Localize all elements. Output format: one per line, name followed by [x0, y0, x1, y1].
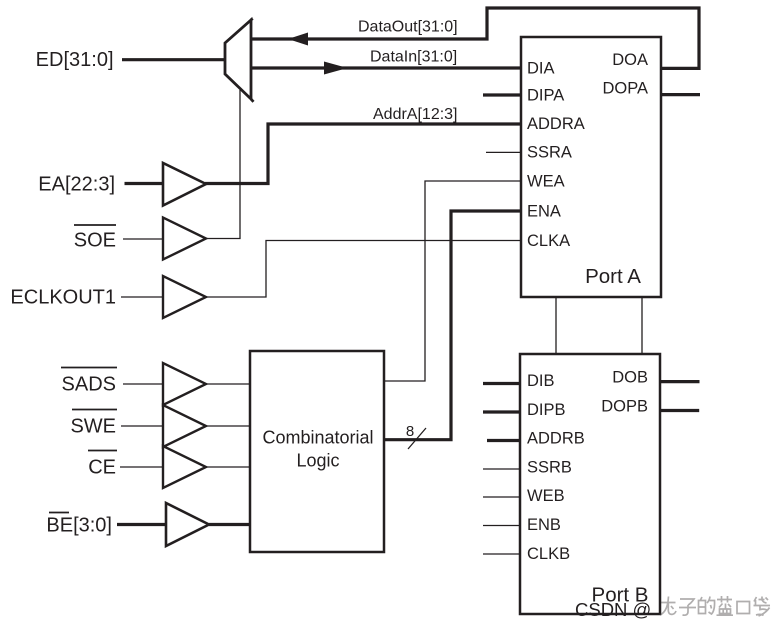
wire ADDRB stub: [487, 439, 520, 442]
wire SWE to logic: [206, 425, 250, 427]
wire SADS input: [123, 383, 163, 385]
svg-text:DIB: DIB: [527, 372, 555, 390]
svg-text:SOE: SOE: [74, 230, 116, 252]
overline BE: [49, 512, 69, 514]
block U3 Port A (block RAM port): [521, 37, 661, 297]
glyph 子: [679, 599, 696, 615]
svg-text:WEB: WEB: [527, 487, 565, 505]
wire ED[31:0] to mux: [122, 58, 226, 61]
buffer SOE: [163, 218, 206, 260]
svg-text:DIPB: DIPB: [527, 401, 566, 419]
wire BE input: [117, 523, 166, 526]
wire SOE input: [123, 238, 163, 240]
wire DIPA stub: [483, 93, 521, 96]
buffer CE: [163, 446, 206, 488]
wire DIB stub: [483, 382, 520, 385]
mux U1 (tristate transceiver trapezoid): [225, 20, 251, 99]
wire Port A to Port B left: [555, 297, 557, 354]
arrowhead DataOut (pointing left): [288, 33, 308, 46]
wire SOE buffer to mux select: [206, 90, 240, 239]
svg-text:CLKB: CLKB: [527, 545, 570, 563]
svg-text:Logic: Logic: [296, 451, 339, 471]
svg-text:EA[22:3]: EA[22:3]: [38, 174, 115, 196]
svg-text:CE: CE: [88, 457, 116, 479]
wire BE to logic: [209, 523, 250, 526]
wire SADS to logic: [206, 383, 250, 385]
wire Port A to Port B right: [641, 297, 643, 354]
overline CE: [88, 450, 117, 452]
svg-text:CLKA: CLKA: [527, 232, 570, 250]
svg-text:ECLKOUT1: ECLKOUT1: [10, 287, 116, 309]
svg-text:ADDRA: ADDRA: [527, 115, 585, 133]
block U4 Port B (block RAM port): [520, 354, 660, 614]
watermark CSDN @丸子的蓝口袋: [575, 596, 770, 620]
wire ECLKOUT1 to CLKA: [206, 241, 521, 298]
wire CE input: [120, 466, 163, 468]
wire EA input: [125, 182, 164, 185]
wire ENB stub: [483, 525, 520, 527]
wire DIPB stub: [483, 410, 520, 413]
svg-text:SSRA: SSRA: [527, 144, 572, 162]
wire WEB stub: [483, 496, 520, 498]
wire WEA from Combinatorial Logic: [384, 181, 521, 381]
svg-text:Combinatorial: Combinatorial: [262, 428, 373, 448]
svg-text:DOPA: DOPA: [602, 80, 648, 98]
svg-text:BE[3:0]: BE[3:0]: [46, 515, 112, 537]
wire DataOut[31:0]: mux to DOA via top: [251, 8, 699, 68]
overline SOE: [74, 224, 116, 226]
svg-text:DOB: DOB: [612, 369, 648, 387]
svg-text:DOPB: DOPB: [601, 397, 648, 415]
svg-text:ADDRB: ADDRB: [527, 430, 585, 448]
wire DOPB stub: [660, 409, 699, 412]
wire CE to logic: [206, 466, 250, 468]
svg-text:SADS: SADS: [62, 374, 116, 396]
svg-text:WEA: WEA: [527, 172, 565, 190]
buffer ECLKOUT1: [163, 276, 206, 318]
wire SSRA stub: [486, 151, 521, 153]
wire ENA bus from Combinatorial Logic (8 wide): [384, 211, 521, 440]
glyph 蓝: [717, 596, 734, 615]
arrowhead DataIn (pointing right): [324, 62, 348, 75]
wire AddrA[12:3]: EA buffer output to ADDRA: [205, 124, 521, 184]
buffer BE: [166, 503, 209, 546]
wire DataIn[31:0]: mux to DIA: [251, 66, 521, 69]
svg-text:DataOut[31:0]: DataOut[31:0]: [358, 19, 458, 36]
buffer SWE: [163, 405, 206, 447]
wire SSRB stub: [483, 468, 520, 470]
svg-text:DIPA: DIPA: [527, 86, 564, 104]
glyph 的: [699, 597, 715, 615]
glyph 袋: [754, 597, 771, 617]
block U2 Combinatorial Logic: [250, 351, 384, 552]
buffer SADS: [163, 363, 206, 405]
wire CLKB stub: [483, 553, 520, 555]
svg-text:ENB: ENB: [527, 516, 561, 534]
svg-text:SSRB: SSRB: [527, 458, 572, 476]
svg-text:CSDN @: CSDN @: [575, 599, 651, 620]
svg-text:Port A: Port A: [585, 265, 641, 288]
svg-text:DOA: DOA: [612, 51, 648, 69]
svg-text:SWE: SWE: [70, 416, 116, 438]
svg-text:DIA: DIA: [527, 59, 555, 77]
wire DOB stub: [660, 380, 700, 383]
svg-text:ED[31:0]: ED[31:0]: [36, 49, 114, 71]
buffer EA: [163, 163, 206, 206]
glyph 口: [737, 602, 750, 614]
overline SWE: [72, 409, 117, 411]
svg-text:AddrA[12:3]: AddrA[12:3]: [373, 106, 458, 123]
wire SWE input: [121, 425, 163, 427]
svg-text:8: 8: [406, 423, 414, 440]
overline SADS: [61, 367, 117, 369]
wire DOPA stub: [661, 93, 700, 96]
bus width slash: [408, 428, 426, 449]
glyph 丸: [660, 597, 676, 616]
svg-text:DataIn[31:0]: DataIn[31:0]: [370, 49, 457, 66]
svg-text:ENA: ENA: [527, 203, 561, 221]
wire ECLKOUT1 input: [121, 296, 163, 298]
